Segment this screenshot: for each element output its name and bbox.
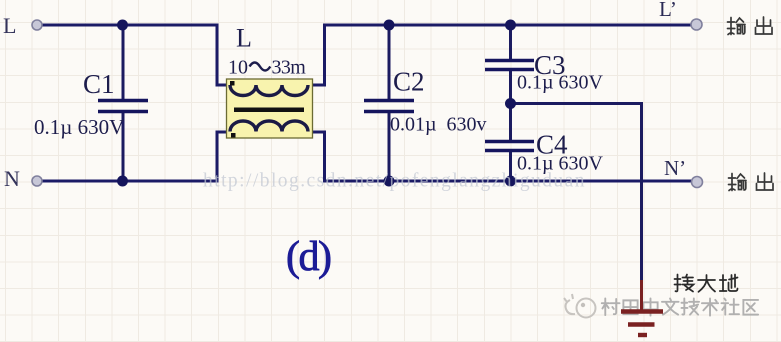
junction C1 bottom [117, 176, 128, 187]
wire earth branch [511, 104, 642, 283]
wire C3-C4 middle [509, 71, 512, 140]
junction C2 bottom [384, 176, 395, 187]
transformer polarity dot top [230, 81, 235, 86]
char ji [681, 298, 699, 314]
char qu [743, 300, 758, 315]
wire bottom rail right (choke to N') [307, 132, 697, 181]
char jie [675, 275, 694, 292]
terminal N [32, 176, 42, 186]
char cun [602, 298, 620, 315]
junction C3-C4 earth node [505, 98, 516, 109]
junction C2 top [384, 20, 395, 31]
junction C4 bottom [505, 176, 516, 187]
wire C4 bottom pin [509, 152, 512, 181]
char wen [662, 298, 679, 314]
capacitor C2 [364, 101, 414, 112]
wire top rail right (choke to L') [307, 25, 696, 85]
terminal L' [691, 19, 702, 30]
label output top (shu chu) [728, 17, 773, 35]
terminal N' [692, 177, 703, 188]
transformer L top winding [230, 85, 308, 96]
capacitor C4 [485, 142, 534, 151]
wire C2 bottom pin [388, 112, 391, 182]
terminal L [32, 20, 42, 30]
watermark community logo [564, 294, 596, 318]
capacitor C1 [98, 101, 148, 112]
transformer value tilde wave [250, 63, 271, 71]
transformer L core bar [234, 108, 304, 113]
wire C3 top pin [509, 25, 512, 60]
char shu [728, 18, 746, 35]
char shu2 [702, 298, 718, 315]
ground earth symbol [621, 280, 663, 335]
wire bottom rail left (N to choke) [43, 132, 232, 181]
wire C1 bottom pin [122, 113, 125, 182]
char da [698, 275, 715, 292]
junction C1 top [117, 20, 128, 31]
transformer L body box [227, 79, 313, 138]
char she [721, 298, 739, 314]
junction C3 top [505, 20, 516, 31]
transformer polarity dot bottom [231, 133, 236, 138]
char tian [623, 300, 637, 314]
char di [720, 275, 738, 292]
wire C2 top pin [388, 25, 391, 100]
wire top rail left (L to choke) [43, 25, 232, 85]
watermark text murata chinese community [602, 298, 758, 315]
label output bottom (shu chu) [729, 173, 774, 191]
char chu [756, 17, 773, 34]
wire C1 top pin [122, 25, 125, 100]
capacitor C3 [485, 61, 534, 70]
transformer L bottom winding [230, 121, 308, 132]
char zhong [643, 298, 657, 315]
label connect to earth (jie da di) [675, 275, 738, 292]
